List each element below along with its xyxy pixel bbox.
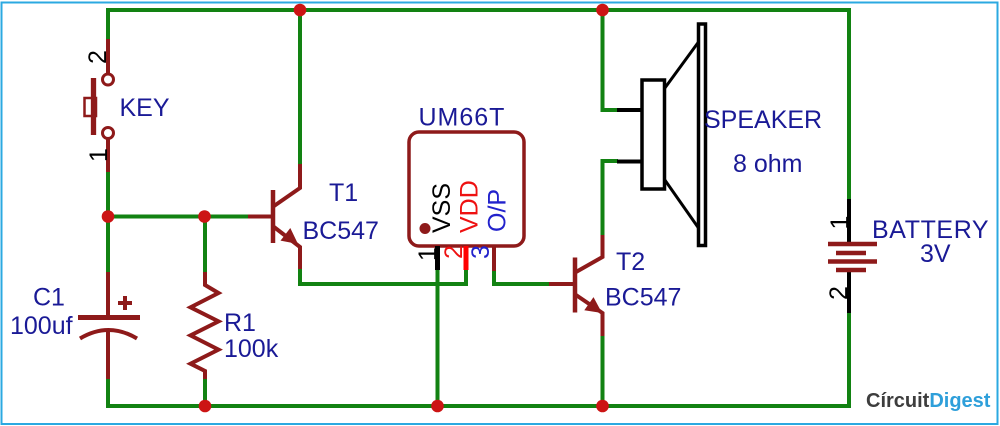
resistor R1 zigzag [191, 272, 219, 379]
junction dot R1 top [198, 210, 211, 223]
svg-text:3V: 3V [920, 240, 951, 268]
speaker bottom terminal [617, 160, 643, 164]
capacitor C1 bottom stub [106, 331, 110, 379]
switch KEY button rectangle [85, 98, 97, 116]
battery plate long 2 [828, 259, 877, 264]
wire speaker bottom terminal to T2 collector [603, 161, 619, 235]
IC UM66T pin1 dot [420, 223, 431, 234]
svg-text:C1: C1 [33, 284, 65, 312]
wire UM66T pin1 to bottom rail [436, 269, 440, 406]
svg-text:3: 3 [467, 245, 495, 259]
wire T1 collector to top rail [298, 10, 302, 164]
wire R1 top [203, 217, 207, 274]
transistor T2 collector [576, 235, 603, 272]
battery bottom black lead [847, 272, 851, 313]
battery plate long 1 [828, 242, 877, 247]
svg-text:BC547: BC547 [303, 217, 379, 245]
transistor T2 emitter [576, 295, 603, 336]
svg-text:T1: T1 [329, 179, 358, 207]
speaker cone bottom diagonal [665, 180, 699, 229]
speaker top terminal [617, 108, 643, 112]
svg-text:T2: T2 [616, 248, 645, 276]
wire R1 bottom [203, 378, 207, 406]
wire T1 base maroon segment [248, 215, 272, 219]
wire UM66T pin3 to T2 base [494, 271, 549, 284]
switch KEY actuator bar [91, 78, 96, 135]
IC UM66T pin 3 stub [492, 246, 496, 271]
junction dot pin1 bottom rail [431, 400, 444, 413]
logo CircuitDigest [866, 390, 991, 412]
speaker magnet box [642, 80, 665, 189]
wire top rail to speaker top terminal [603, 12, 619, 110]
wire T1 emitter to UM66T pin2 [300, 269, 466, 284]
svg-text:8 ohm: 8 ohm [733, 150, 802, 178]
capacitor C1 bottom arc plate [80, 330, 137, 339]
switch KEY pin 1 stub [106, 138, 110, 172]
wire top rail with KEY drop and battery right rail [108, 10, 849, 200]
capacitor C1 top plate [78, 315, 140, 320]
junction dot top rail T1 collector [294, 4, 307, 17]
junction dot left KEY C1 [102, 210, 115, 223]
svg-text:KEY: KEY [120, 94, 170, 122]
svg-text:VDD: VDD [456, 180, 484, 233]
junction dot top rail speaker [596, 4, 609, 17]
svg-text:UM66T: UM66T [419, 104, 506, 132]
svg-text:2: 2 [84, 50, 112, 64]
junction dot T2 emitter bottom rail [596, 400, 609, 413]
switch KEY pin 1 circle [103, 128, 114, 139]
capacitor C1 plus sign [118, 296, 132, 310]
svg-text:VSS: VSS [428, 183, 456, 233]
transistor T2 base bar [573, 258, 578, 313]
svg-text:2: 2 [440, 245, 468, 259]
switch KEY pin 2 circle [103, 74, 114, 85]
wire KEY bottom to junction [106, 172, 110, 273]
wire junction to T1 base (green part) [108, 215, 248, 219]
IC UM66T pin 1 stub [435, 246, 440, 270]
wire T2 emitter to bottom rail [601, 336, 605, 406]
transistor T1 emitter [274, 227, 300, 269]
svg-text:1: 1 [826, 216, 854, 230]
wire bottom rail with C1 drop and battery right rail [108, 312, 849, 406]
IC UM66T body [409, 132, 524, 246]
transistor T1 base bar [271, 190, 276, 243]
transistor T1 emitter arrow [281, 228, 299, 244]
svg-text:100uf: 100uf [10, 312, 73, 340]
capacitor C1 top stub [106, 272, 110, 316]
svg-text:CírcuitDigest: CírcuitDigest [866, 390, 991, 412]
battery top black lead [847, 199, 851, 242]
svg-text:R1: R1 [224, 309, 256, 337]
battery plate short 1 [836, 251, 866, 256]
speaker cone top diagonal [665, 42, 699, 89]
battery plate short 2 [836, 268, 866, 273]
svg-text:100k: 100k [224, 335, 279, 363]
wire T2 base maroon segment [549, 282, 573, 286]
IC UM66T pin 2 stub [464, 246, 469, 270]
transistor T2 emitter arrow [584, 297, 602, 313]
svg-text:1: 1 [85, 148, 113, 162]
svg-text:2: 2 [825, 286, 853, 300]
svg-text:1: 1 [414, 247, 442, 261]
svg-text:O/P: O/P [484, 189, 512, 232]
svg-text:BC547: BC547 [605, 284, 681, 312]
speaker diaphragm rectangle [699, 24, 706, 246]
transistor T1 collector [274, 164, 300, 206]
junction dot R1 bottom [199, 400, 212, 413]
svg-text:SPEAKER: SPEAKER [704, 106, 822, 134]
switch KEY pin 2 stub [106, 39, 110, 74]
